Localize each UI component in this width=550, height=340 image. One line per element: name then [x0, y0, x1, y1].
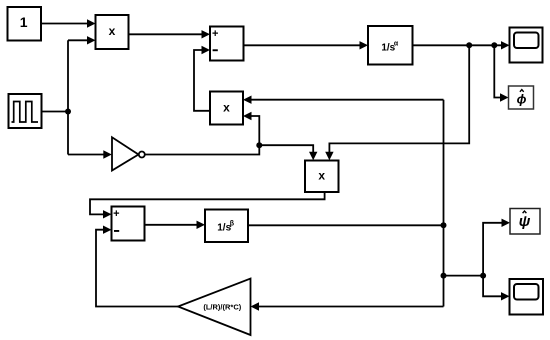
display block psi-hat: [510, 209, 540, 235]
wire sum S2 to integrator 1/s^beta: [145, 221, 206, 229]
svg-text:α: α: [394, 40, 399, 47]
wire junction J4 to product P3 top-left input: [259, 145, 317, 160]
wire NOT gate output to junction J4: [145, 145, 259, 154]
sum block S2: [112, 207, 145, 241]
wire junction J2 down and left to product P3 top input: [325, 45, 469, 160]
junction J1: [65, 109, 71, 115]
wire junction to NOT gate: [68, 150, 112, 158]
wire product P3 output to sum S2 plus input: [90, 192, 325, 219]
wire psi bus to product P2 upper-right input: [243, 96, 444, 104]
junction J6: [441, 273, 447, 279]
wire integrator 1/s^alpha to scope SC1: [413, 41, 510, 49]
wire pulse generator to junction: [42, 111, 69, 113]
junction J3: [491, 42, 497, 48]
svg-text:x: x: [223, 100, 230, 114]
junction J5: [441, 222, 447, 228]
integrator block 1/s^alpha: [368, 26, 413, 65]
product block P3: [305, 161, 339, 193]
wire integrator 1/s^beta output to psi bus: [248, 224, 444, 226]
wire junction J3 to display phi-hat: [494, 45, 508, 101]
scope block SC1: [510, 28, 543, 63]
svg-text:1: 1: [20, 14, 28, 30]
gain block (L/R)/(R*C): [178, 279, 251, 336]
wire junction J6 to junction J7: [444, 275, 484, 277]
svg-text:(L/R)/(R*C): (L/R)/(R*C): [203, 303, 241, 312]
wire sum S1 to integrator 1/s^a: [244, 41, 369, 49]
junction J2: [466, 42, 472, 48]
wire psi bus vertical: [443, 100, 445, 307]
constant block "1": [8, 7, 42, 41]
product block P1: [96, 15, 129, 49]
svg-text:β: β: [230, 221, 235, 228]
svg-text:x: x: [109, 24, 116, 38]
wire psi bus to gain input: [251, 302, 444, 310]
junction J4: [256, 142, 262, 148]
wire junction J7 to scope SC2: [483, 276, 509, 301]
svg-text:+: +: [113, 208, 119, 220]
wire junction J7 to display psi-hat: [483, 219, 510, 276]
junction J7: [480, 273, 486, 279]
pulse generator block: [9, 94, 42, 128]
display block phi-hat: [509, 86, 534, 109]
NOT gate: [112, 137, 145, 170]
svg-text:ψ: ψ: [519, 213, 531, 230]
sum block S1: [210, 27, 244, 61]
wire junction J4 up to product P2 lower-right input: [243, 112, 259, 145]
wire gain output to sum S2 minus input: [96, 226, 178, 307]
wire product P2 output to sum S1 minus input: [194, 46, 210, 111]
wire constant to product P1: [41, 19, 96, 27]
svg-text:x: x: [318, 169, 325, 183]
integrator block 1/s^beta: [205, 210, 248, 243]
wire junction vertical branch: [67, 40, 69, 154]
product block P2 (mirrored): [210, 92, 243, 125]
svg-text:+: +: [212, 28, 218, 40]
svg-text:ϕ: ϕ: [517, 91, 527, 106]
wire product P1 to sum S1 plus input: [129, 30, 211, 38]
scope block SC2: [510, 279, 544, 315]
wire junction to product P1 lower input: [68, 36, 96, 44]
